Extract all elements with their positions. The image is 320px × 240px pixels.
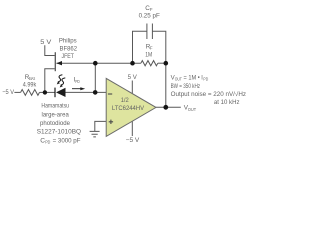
svg-text:OUT: OUT bbox=[175, 77, 182, 82]
photodiode D1 cathode bar bbox=[54, 88, 56, 98]
node input rail / photodiode bbox=[93, 90, 98, 95]
svg-text:−5 V: −5 V bbox=[126, 137, 140, 144]
op-amp plus sign bbox=[109, 120, 113, 124]
svg-text:= 3000 pF: = 3000 pF bbox=[53, 137, 81, 144]
svg-text:JFET: JFET bbox=[62, 53, 75, 60]
svg-text:PD: PD bbox=[203, 77, 208, 82]
svg-text:BIAS: BIAS bbox=[29, 76, 35, 81]
wire +5V supply to op-amp bbox=[131, 81, 133, 94]
current arrow IPD bbox=[72, 88, 81, 90]
node gate rail / CF left bbox=[130, 61, 135, 66]
wire -5V supply from op-amp bbox=[131, 122, 133, 137]
node output bbox=[163, 105, 168, 110]
svg-text:4.99k: 4.99k bbox=[23, 82, 37, 89]
wire photodiode to op-amp inverting input bbox=[66, 91, 107, 93]
photodiode D1 triangle bbox=[56, 88, 66, 97]
svg-text:LTC6244HV: LTC6244HV bbox=[112, 105, 145, 112]
svg-text:1/2: 1/2 bbox=[121, 97, 129, 104]
wire 5V to JFET drain bbox=[45, 45, 55, 55]
wire RBIAS to photodiode bbox=[40, 91, 56, 93]
op-amp U1 LTC6244HV triangle bbox=[106, 78, 156, 136]
svg-text:PD: PD bbox=[75, 79, 80, 84]
wire vertical from gate rail down to input rail bbox=[94, 63, 96, 92]
junction node dots bbox=[43, 61, 169, 110]
wire CF right lead and feedback right vertical bbox=[152, 31, 165, 107]
wire op-amp + input to ground bbox=[95, 121, 106, 131]
light arrow 2 bbox=[61, 78, 66, 85]
svg-text:= 1M • I: = 1M • I bbox=[184, 75, 204, 82]
svg-text:F: F bbox=[150, 46, 153, 51]
ground symbol bbox=[90, 131, 100, 137]
wire JFET source down to photodiode node bbox=[45, 69, 55, 93]
svg-text:F: F bbox=[150, 7, 153, 12]
op-amp minus sign bbox=[108, 93, 112, 95]
node RF right / feedback vertical bbox=[164, 61, 169, 66]
resistor RF zigzag bbox=[141, 61, 158, 66]
svg-text:5 V: 5 V bbox=[40, 39, 52, 46]
wire feedback left vertical up to CF bbox=[133, 31, 147, 63]
svg-text:at 10 kHz: at 10 kHz bbox=[214, 99, 240, 106]
light arrow 1 bbox=[58, 75, 63, 82]
transistor Q1 BF862 JFET channel bar bbox=[54, 52, 56, 71]
svg-text:photodiode: photodiode bbox=[40, 120, 70, 127]
svg-text:BF862: BF862 bbox=[60, 46, 78, 53]
svg-text:−5 V: −5 V bbox=[2, 89, 15, 96]
transistor Q1 gate arrow bbox=[56, 61, 62, 65]
svg-text:large-area: large-area bbox=[42, 111, 70, 118]
node gate rail / input vertical bbox=[93, 61, 98, 66]
wire gate rail left segment bbox=[56, 62, 140, 64]
svg-text:OUT: OUT bbox=[188, 107, 196, 112]
resistor RBIAS zigzag bbox=[21, 90, 40, 96]
svg-text:5 V: 5 V bbox=[128, 74, 138, 81]
wire op-amp output to VOUT bbox=[156, 106, 181, 108]
svg-text:0.25 pF: 0.25 pF bbox=[139, 12, 160, 19]
svg-text:Philips: Philips bbox=[59, 38, 77, 45]
svg-text:Output noise = 220 nV/√Hz: Output noise = 220 nV/√Hz bbox=[171, 91, 246, 98]
svg-text:1M: 1M bbox=[145, 52, 152, 59]
wire gate rail right segment (RF right lead) bbox=[158, 62, 166, 64]
svg-text:BW = 350 kHz: BW = 350 kHz bbox=[171, 83, 201, 90]
capacitor CF plates bbox=[147, 24, 153, 40]
wire -5V to RBIAS bbox=[14, 91, 20, 93]
svg-text:PD: PD bbox=[45, 139, 51, 144]
node RBIAS/photodiode junction bbox=[43, 90, 47, 94]
svg-text:S1227-1010BQ: S1227-1010BQ bbox=[37, 129, 81, 136]
svg-text:Hamamatsu: Hamamatsu bbox=[41, 103, 69, 110]
